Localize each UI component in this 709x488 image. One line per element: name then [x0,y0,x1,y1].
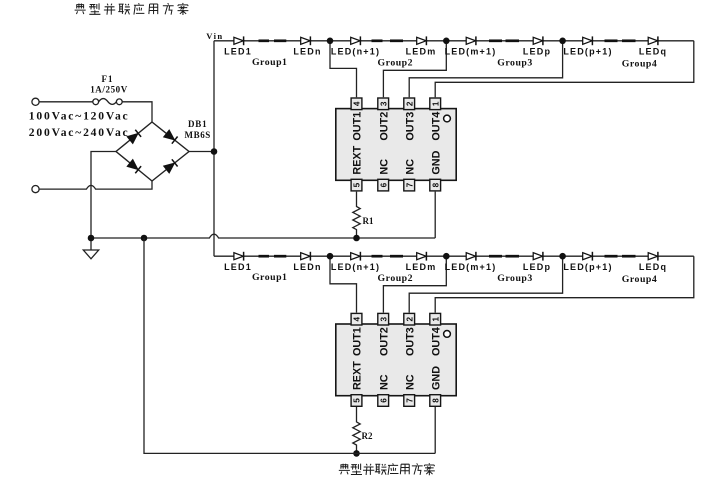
svg-text:OUT4: OUT4 [430,327,442,356]
svg-text:NC: NC [378,374,390,390]
svg-text:OUT1: OUT1 [352,327,364,356]
svg-text:2: 2 [405,316,414,321]
svg-text:LEDn: LEDn [293,46,321,56]
svg-text:LEDn: LEDn [293,262,321,272]
svg-text:3: 3 [379,101,388,106]
svg-text:6: 6 [379,398,388,403]
svg-text:LED1: LED1 [224,46,252,56]
svg-text:LEDp: LEDp [523,262,551,272]
svg-text:Group1: Group1 [252,57,288,68]
svg-text:OUT2: OUT2 [378,327,390,356]
svg-text:LED(n+1): LED(n+1) [331,262,380,272]
svg-text:Group2: Group2 [378,273,414,284]
svg-text:4: 4 [353,101,362,106]
svg-text:GND: GND [430,150,442,174]
svg-text:NC: NC [404,159,416,175]
svg-text:F1: F1 [102,74,114,84]
svg-text:LEDm: LEDm [406,262,437,272]
svg-text:LED(m+1): LED(m+1) [445,46,497,56]
svg-text:GND: GND [430,366,442,390]
svg-text:DB1: DB1 [188,119,207,129]
svg-text:Vin: Vin [206,31,223,41]
svg-text:LEDp: LEDp [523,46,551,56]
svg-text:6: 6 [379,182,388,187]
svg-text:5: 5 [353,398,362,403]
svg-text:Group3: Group3 [497,58,533,69]
svg-text:LED(p+1): LED(p+1) [563,46,612,56]
svg-text:Group2: Group2 [378,58,414,69]
svg-text:R2: R2 [362,431,373,441]
svg-text:NC: NC [404,374,416,390]
svg-text:REXT: REXT [352,361,364,390]
svg-text:LEDq: LEDq [639,46,667,56]
svg-text:LED(n+1): LED(n+1) [331,46,380,56]
svg-text:3: 3 [379,316,388,321]
svg-text:8: 8 [431,398,440,403]
svg-text:LED1: LED1 [224,262,252,272]
svg-text:8: 8 [431,182,440,187]
svg-text:7: 7 [405,182,414,187]
svg-text:LEDq: LEDq [639,262,667,272]
svg-text:REXT: REXT [352,145,364,174]
svg-text:OUT4: OUT4 [430,112,442,141]
svg-text:LED(p+1): LED(p+1) [563,262,612,272]
svg-text:OUT2: OUT2 [378,112,390,141]
svg-text:4: 4 [353,316,362,321]
svg-text:7: 7 [405,398,414,403]
svg-text:LED(m+1): LED(m+1) [445,262,497,272]
svg-text:1: 1 [431,101,440,106]
svg-text:Group4: Group4 [622,59,658,70]
svg-text:NC: NC [378,159,390,175]
svg-text:1: 1 [431,316,440,321]
svg-text:Group3: Group3 [497,273,533,284]
svg-text:200Vac~240Vac: 200Vac~240Vac [29,126,130,139]
svg-text:LEDm: LEDm [406,46,437,56]
svg-text:OUT1: OUT1 [352,112,364,141]
svg-text:Group1: Group1 [252,272,288,283]
svg-text:MB6S: MB6S [185,130,211,140]
svg-text:OUT3: OUT3 [404,112,416,141]
svg-text:5: 5 [353,182,362,187]
svg-text:OUT3: OUT3 [404,327,416,356]
svg-text:R1: R1 [363,216,374,226]
svg-text:100Vac~120Vac: 100Vac~120Vac [29,110,130,123]
svg-text:Group4: Group4 [622,274,658,285]
svg-text:2: 2 [405,101,414,106]
svg-text:1A/250V: 1A/250V [90,85,128,95]
